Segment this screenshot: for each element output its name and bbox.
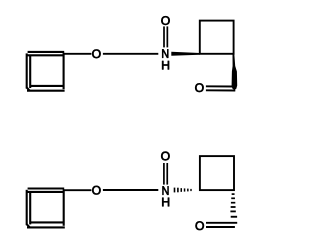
cyclobutane ring (top) (200, 21, 234, 54)
atom label O aldehyde (bottom) (196, 221, 204, 230)
cyclobutane ring (bottom) (200, 156, 234, 190)
atom label O ether (bottom) (92, 186, 100, 195)
bond ether O to N (bottom) (103, 189, 158, 191)
double bond N=O (top) (164, 26, 167, 47)
stereo wedge bond N to ring (top, solid) (171, 52, 200, 56)
atom label O aldehyde (top) (195, 83, 203, 92)
atom label O of N=O (bottom) (161, 152, 169, 161)
atom label O ether (top) (92, 49, 100, 58)
phenyl ring drawn as square (top molecule) (27, 52, 65, 91)
stereo hash bond N to ring (bottom, dashed wedge) (174, 188, 192, 193)
phenyl ring drawn as square (bottom molecule) (27, 189, 65, 228)
double bond C=O aldehyde (bottom) (206, 223, 237, 227)
bond ether O to N (top) (103, 53, 158, 55)
double bond N=O (bottom) (164, 163, 167, 185)
atom label O of N=O (top) (161, 16, 169, 25)
stereo wedge bond ring to CHO (top, solid) (232, 54, 238, 90)
double bond C=O aldehyde (top) (206, 86, 235, 90)
atom label H on N (bottom) (162, 198, 169, 206)
bond ring to ether O (bottom) (64, 189, 92, 191)
stereo hash bond ring to CHO (bottom, dashed wedge) (230, 193, 237, 217)
bond ring to ether O (top) (64, 53, 92, 55)
atom label N (bottom) (163, 186, 169, 194)
atom label H on N (top) (162, 61, 169, 69)
atom label N (top) (162, 49, 168, 57)
